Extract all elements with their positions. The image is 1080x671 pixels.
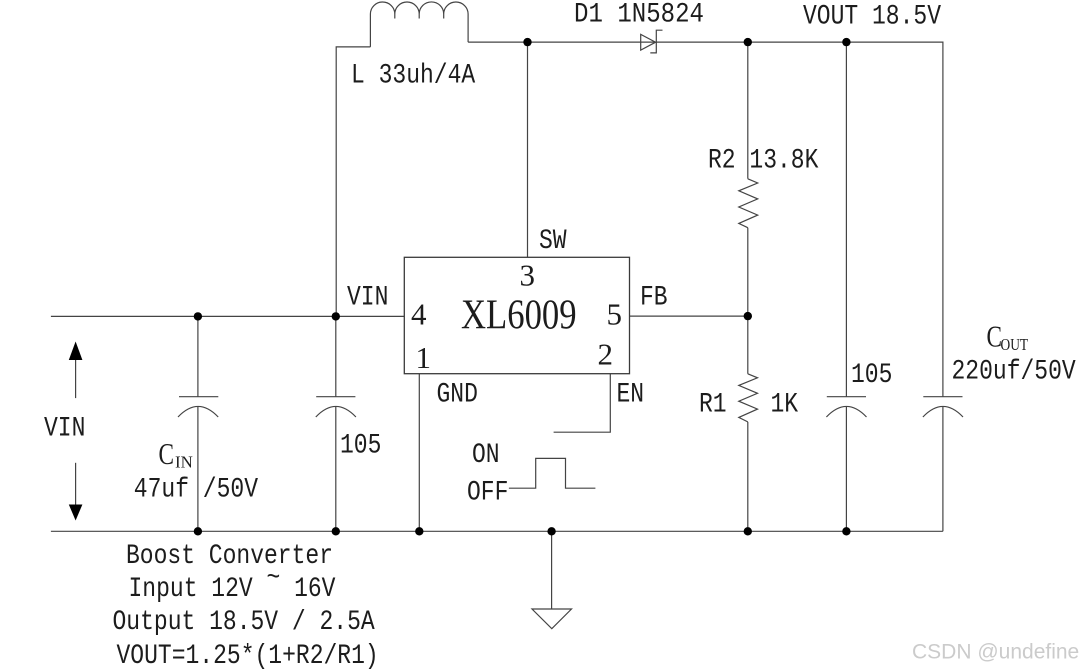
node gnd CIN dot bbox=[194, 527, 202, 535]
svg-text:CSDN @undefined: CSDN @undefined bbox=[912, 641, 1080, 664]
wire R1 bottom bbox=[747, 422, 749, 531]
resistor R2 bbox=[739, 179, 758, 228]
svg-text:OFF: OFF bbox=[467, 478, 508, 509]
svg-text:3: 3 bbox=[520, 258, 536, 293]
wire GND pin 1 bbox=[418, 374, 420, 532]
svg-text:XL6009: XL6009 bbox=[461, 293, 577, 339]
wire R2 top bbox=[747, 42, 749, 179]
wire cap 105 left branch bottom bbox=[335, 407, 337, 532]
svg-text:IN: IN bbox=[175, 453, 193, 472]
node FB junction dot bbox=[744, 312, 752, 320]
svg-text:47uf /50V: 47uf /50V bbox=[134, 475, 258, 506]
wire CIN branch top bbox=[197, 316, 199, 396]
capacitor COUT plates bbox=[923, 397, 963, 417]
svg-text:SW: SW bbox=[539, 226, 567, 257]
ground symbol triangle bbox=[532, 609, 572, 629]
wire ground rail bbox=[51, 530, 943, 532]
svg-text:FB: FB bbox=[640, 283, 668, 314]
node gnd pin1 dot bbox=[415, 527, 423, 535]
svg-text:1: 1 bbox=[416, 340, 432, 375]
capacitor CIN plates bbox=[178, 397, 218, 417]
wire COUT bottom bbox=[942, 407, 944, 532]
svg-text:2: 2 bbox=[598, 337, 614, 372]
svg-text:4: 4 bbox=[411, 297, 427, 332]
wire cap 105 right branch bottom bbox=[845, 407, 847, 532]
wire R2 to FB node bbox=[747, 228, 749, 316]
node gnd 105 left dot bbox=[332, 527, 340, 535]
node gnd 105 right dot bbox=[842, 527, 850, 535]
svg-text:VIN: VIN bbox=[347, 283, 388, 314]
svg-text:Input 12V: Input 12V bbox=[129, 574, 253, 605]
svg-text:VIN: VIN bbox=[44, 414, 85, 445]
node VOUT junction dot bbox=[842, 38, 850, 46]
svg-text:ON: ON bbox=[472, 440, 500, 471]
svg-text:R1: R1 bbox=[699, 389, 727, 420]
svg-text:C: C bbox=[159, 436, 175, 471]
wire CIN branch bottom bbox=[197, 407, 199, 532]
node VIN-CIN junction dot bbox=[194, 312, 202, 320]
node gnd symbol dot bbox=[547, 527, 555, 535]
wire FB node to R1 bbox=[747, 316, 749, 374]
node SW junction dot bbox=[523, 38, 531, 46]
capacitor 105 right plates bbox=[826, 397, 866, 417]
EN pulse waveform bbox=[509, 458, 596, 488]
node gnd R1 dot bbox=[744, 527, 752, 535]
node diode-R2 junction dot bbox=[744, 38, 752, 46]
svg-text:VOUT=1.25*(1+R2/R1): VOUT=1.25*(1+R2/R1) bbox=[117, 641, 379, 671]
capacitor 105 left plates bbox=[316, 397, 356, 417]
diode D1 schottky bar bbox=[650, 30, 662, 53]
svg-text:L 33uh/4A: L 33uh/4A bbox=[351, 60, 475, 91]
svg-text:16V: 16V bbox=[294, 574, 336, 605]
svg-text:~: ~ bbox=[267, 563, 281, 594]
inductor L1 bbox=[370, 2, 468, 47]
wire FB bbox=[630, 315, 748, 317]
VIN arrow lower shaft bbox=[75, 463, 77, 505]
svg-text:1K: 1K bbox=[771, 389, 799, 420]
wire cap 105 right branch top bbox=[845, 42, 847, 397]
svg-text:VOUT 18.5V: VOUT 18.5V bbox=[803, 2, 941, 33]
ground symbol stem bbox=[551, 531, 553, 609]
svg-text:GND: GND bbox=[437, 380, 478, 411]
svg-text:D1 1N5824: D1 1N5824 bbox=[574, 0, 704, 31]
wire inductor branch riser bbox=[336, 47, 370, 317]
svg-text:Output 18.5V / 2.5A: Output 18.5V / 2.5A bbox=[113, 607, 375, 638]
diode D1 triangle bbox=[641, 34, 656, 50]
wire top rail bbox=[468, 42, 943, 397]
op-amp box XL6009 U1 bbox=[404, 257, 629, 373]
svg-text:220uf/50V: 220uf/50V bbox=[952, 357, 1076, 388]
wire EN pin 2 bbox=[554, 374, 611, 433]
svg-text:5: 5 bbox=[607, 297, 623, 332]
svg-text:R2 13.8K: R2 13.8K bbox=[708, 146, 819, 177]
VIN arrow upper shaft bbox=[75, 360, 77, 398]
wire VIN rail bbox=[51, 315, 404, 317]
VIN arrow up head bbox=[69, 342, 83, 361]
svg-text:Boost Converter: Boost Converter bbox=[126, 541, 333, 572]
VIN arrow down head bbox=[69, 505, 83, 521]
resistor R1 bbox=[739, 374, 758, 422]
svg-text:105: 105 bbox=[851, 360, 892, 391]
node VIN-105 junction dot bbox=[332, 312, 340, 320]
svg-text:105: 105 bbox=[340, 430, 381, 461]
svg-text:OUT: OUT bbox=[1001, 335, 1029, 354]
svg-text:EN: EN bbox=[617, 380, 645, 411]
wire SW vertical bbox=[527, 42, 529, 257]
wire cap 105 left branch top bbox=[335, 316, 337, 396]
